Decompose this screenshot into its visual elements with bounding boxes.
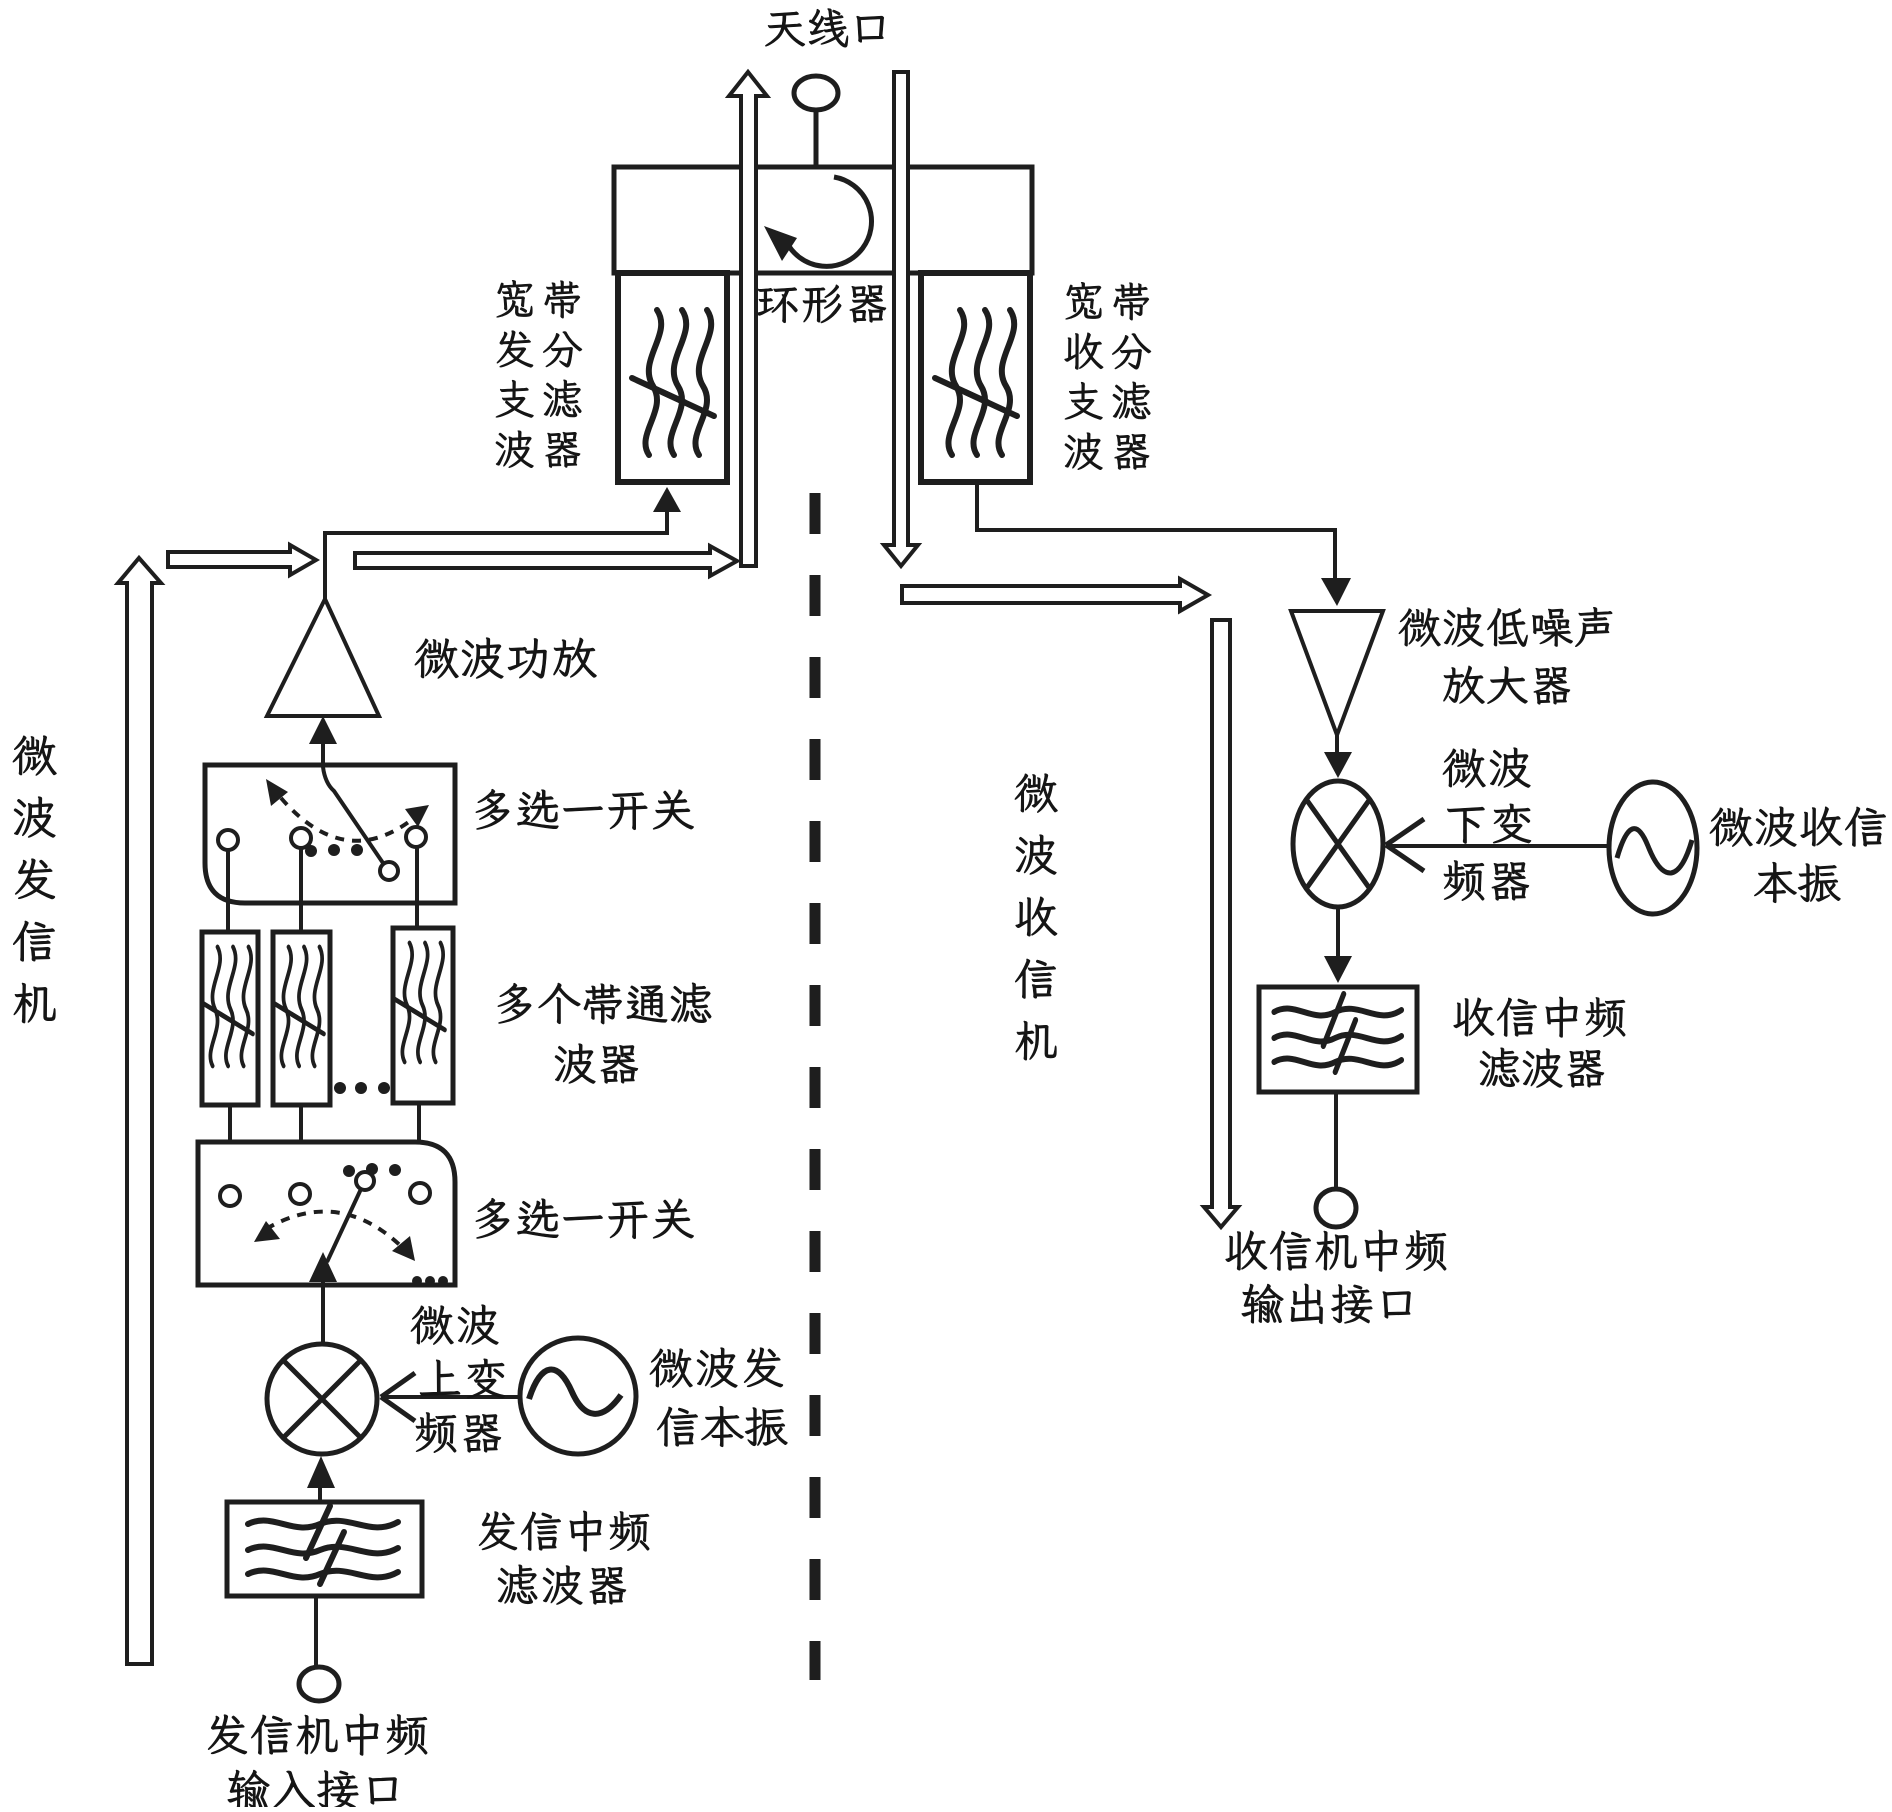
ellipsis dots between bandpass filters [334,1082,390,1094]
wire right branch filter to LNA [977,482,1335,578]
labels right branch filter 宽带收分支滤波器 [1065,282,1151,470]
circulator housing box [614,167,1032,273]
arrow into amplifier [321,742,325,766]
wire oscillator RX to mixer [1390,844,1609,848]
right branch filter waves [935,310,1017,455]
labels 微波低噪声放大器 [1399,607,1612,704]
bandpass filter box 3 [393,928,453,1103]
wire to TX input port [314,1596,318,1667]
RX IF output port circle [1316,1189,1356,1227]
amplifier triangle 微波功放 [267,599,379,716]
circulator rotation arrow [786,177,871,266]
right branch filter box [921,273,1030,482]
left tall hollow arrow (transmitter feed) [118,558,161,1664]
switch1 ellipsis dots [305,844,363,857]
labels 微波发信本振 [650,1348,788,1447]
label 多选一开关 (upper) [476,789,694,830]
wire TX IF filter to mixer (up arrow) [318,1487,322,1502]
switch2 input arrow from mixer [321,1280,325,1344]
dashed divider line [810,493,821,1680]
label 多选一开关 (lower) [476,1198,694,1239]
switch2 port circles [220,1186,240,1206]
labels 微波收信本振 [1710,807,1886,903]
switch2 ellipsis dots [343,1163,401,1177]
oscillator TX circle [520,1338,636,1454]
label 微波功放 [415,638,597,679]
vertical label 微波发信机 [13,736,57,1023]
wire to RX output port [1334,1092,1338,1189]
labels 发信中频滤波器 [479,1511,649,1605]
mixer RX circle-X [1293,781,1383,907]
label circulator 环形器 [757,285,886,323]
labels 收信中频滤波器 [1454,997,1626,1088]
right tall hollow arrow down (receiver) [1204,620,1238,1227]
labels left branch filter 宽带发分支滤波器 [496,280,582,468]
second horizontal hollow arrow [355,546,737,576]
TX IF input port circle [299,1667,339,1701]
first horizontal hollow arrow [168,545,316,575]
receive hollow line down from antenna [884,72,918,566]
switch1 wire from top and arm [323,744,383,863]
wire antenna stem [814,110,819,167]
bandpass filter box 2 [273,932,330,1105]
LNA triangle (points down) [1291,611,1383,735]
labels 发信机中频输入接口 [208,1714,427,1809]
switch1 dashed rotation arc [281,798,414,841]
transmit hollow arrow up to antenna [729,72,767,566]
label 多个带通滤波器 [498,983,711,1084]
switch box 1 (top) [205,765,455,903]
RX IF filter box 收信中频滤波器 [1259,987,1417,1092]
labels 收信机中频输出接口 [1226,1230,1447,1324]
label antenna port 天线口 [765,9,883,48]
left branch filter waves [632,310,714,455]
switch2 dashed rotation arc [266,1212,404,1249]
wires bandpass filters to switch2 [228,1105,232,1187]
wire oscillator to mixer TX [385,1395,525,1399]
wire LNA to mixer RX [1335,735,1339,752]
left branch filter box [618,273,727,482]
receive horizontal hollow arrow [902,579,1208,611]
labels 微波下变频器 [1443,748,1531,901]
switch box 2 (bottom) [198,1142,455,1285]
switch1 port circles [218,830,238,850]
oscillator RX circle [1609,782,1697,914]
labels 微波上变频器 [411,1305,505,1453]
wire mixer RX to IF filter [1336,907,1340,956]
switch1 pivot circle [380,862,398,880]
bandpass filter box 1 [202,932,258,1105]
wires switch1 to bandpass filters [226,850,230,932]
switch2 pivot circle and arm [356,1172,374,1190]
vertical label 微波收信机 [1015,774,1058,1061]
mixer TX circle-X [267,1344,377,1454]
wire amp to left branch filter [325,505,667,599]
antenna port circle [794,76,838,110]
TX IF filter box 发信中频滤波器 [227,1502,422,1596]
